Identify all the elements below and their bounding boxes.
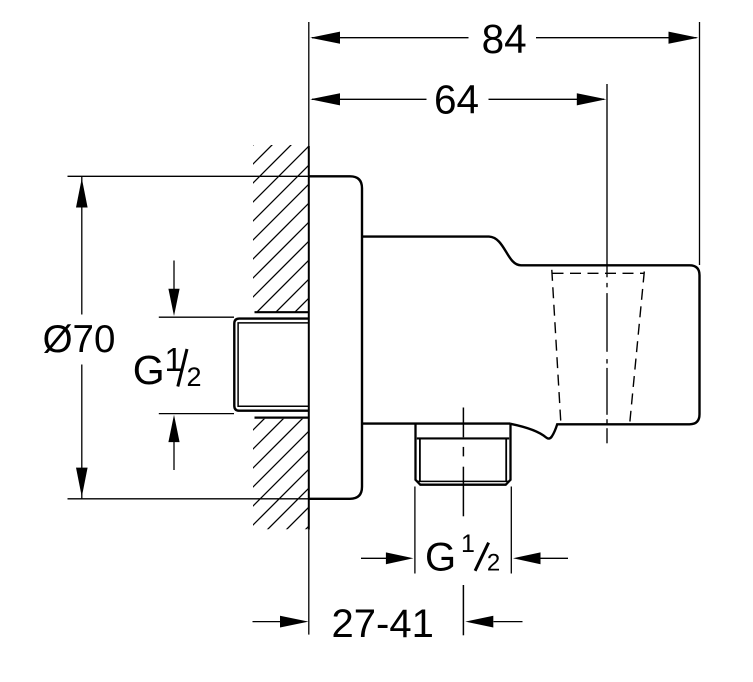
svg-text:2: 2 <box>487 549 500 576</box>
svg-text:27-41: 27-41 <box>332 602 434 646</box>
svg-text:1: 1 <box>461 530 475 558</box>
svg-text:Ø70: Ø70 <box>43 318 116 361</box>
svg-text:64: 64 <box>434 77 479 123</box>
svg-text:G: G <box>133 347 165 393</box>
svg-text:2: 2 <box>187 362 202 392</box>
svg-text:G: G <box>425 536 456 580</box>
svg-text:84: 84 <box>482 16 527 62</box>
